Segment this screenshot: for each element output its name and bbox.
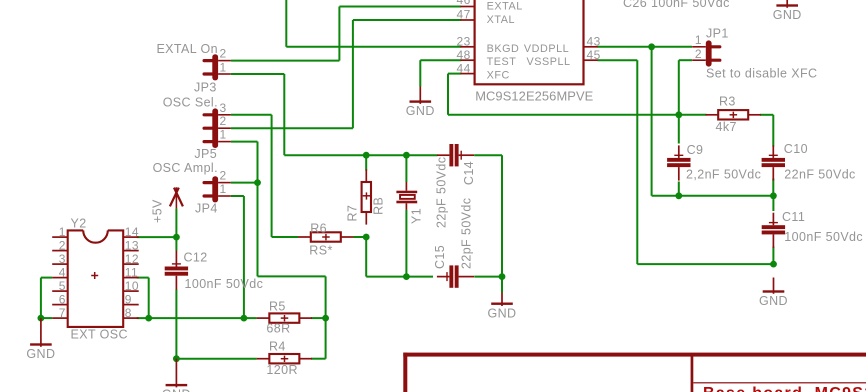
wire C15 right [474,276,502,278]
svg-text:1: 1 [220,60,227,74]
jumper JP4 [204,176,231,202]
IC U1 MC9S12E256MPVE box and pins [460,0,597,84]
svg-text:14: 14 [125,225,139,239]
svg-text:EXT OSC: EXT OSC [71,327,128,341]
wire VSSPLL vertical [636,60,638,264]
wire EXTAL vertical [338,7,340,61]
resistor R5 [257,313,312,322]
junction R7 top [363,152,370,159]
wire XFC vertical [447,74,449,115]
junction Y2 pin7-GND [38,315,45,322]
svg-text:BKGD: BKGD [487,43,520,55]
svg-text:C15: C15 [433,245,447,269]
svg-text:C14: C14 [462,161,476,185]
wire XTAL to JP5 pin2 [231,127,353,129]
ground C15 [488,293,517,321]
capacitor C15 [437,265,474,287]
wire R5 right vertical [325,276,327,358]
svg-text:5: 5 [59,279,66,293]
svg-text:R5: R5 [269,299,286,313]
junction R6-R7 [363,234,370,241]
junction JP5.1-JP4.2 [254,179,261,186]
capacitor C11 [762,213,785,248]
wire JP5 pin3 vertical [271,115,273,237]
wire JP5 pin1 vertical [257,142,259,183]
svg-text:OSC Ampl.: OSC Ampl. [153,161,218,175]
wire Y2 pin4 [41,277,52,279]
IC Y2 EXT OSC box and pins [52,230,139,327]
capacitor C9 [667,145,690,180]
junction +5V-pin14 [173,234,180,241]
wire VDDPLL pin43 to JP1 pin1 [598,46,693,48]
wire JP5 pin1 horizontal [231,141,258,143]
svg-text:C11: C11 [782,210,805,224]
resistor R4 [257,354,312,363]
svg-text:XFC: XFC [487,70,510,82]
wire OSC ampl horizontal [258,275,326,277]
junction VDDPLL-JP1 [648,43,655,50]
svg-text:EXTAL On: EXTAL On [156,42,218,56]
capacitor C12 [165,251,188,290]
wire C9 top [678,115,680,144]
svg-text:1: 1 [220,128,227,142]
resistor R3 [706,110,761,119]
svg-text:GND: GND [406,104,435,118]
wire R6 to Y1 bottom [366,276,406,278]
wire JP4 pin1 horizontal [231,195,244,197]
svg-text:R6: R6 [310,221,327,235]
svg-text:Base board MC9S12E256MPVE: Base board MC9S12E256MPVE [703,385,866,392]
svg-text:1: 1 [59,225,66,239]
wire R6 right [353,236,366,238]
svg-text:VSSPLL: VSSPLL [527,56,571,68]
svg-text:47: 47 [457,8,471,22]
svg-text:1: 1 [220,182,227,196]
ground C12 [162,359,191,392]
wire JP3 pin1 vertical [283,74,285,155]
svg-text:7: 7 [59,306,66,320]
svg-text:2: 2 [59,238,66,252]
wire crystal top rail [284,154,437,156]
wire R6 left [272,236,299,238]
wire EXTAL pin46 horizontal [339,6,461,8]
capacitor C10 [762,145,785,180]
svg-text:6: 6 [59,292,66,306]
svg-text:100nF 50Vdc: 100nF 50Vdc [185,277,264,291]
wire XFC to R3 [448,114,706,116]
wire C15 gnd stub [501,277,503,293]
svg-text:10: 10 [125,279,139,293]
wire Y2 pin4 vertical [40,278,42,319]
svg-text:9: 9 [125,292,132,306]
svg-text:GND: GND [26,347,55,361]
resistor R6 [298,232,353,241]
wire C12 bottom vertical [175,290,177,359]
wire R4 left row [176,358,256,360]
svg-text:MC9S12E256MPVE: MC9S12E256MPVE [475,88,593,103]
svg-text:3: 3 [59,252,66,266]
wire Y2 pin7 [41,317,52,319]
svg-text:48: 48 [457,48,471,62]
wire R7 top [365,155,367,170]
svg-text:120R: 120R [266,363,297,377]
svg-text:Set to disable XFC: Set to disable XFC [706,67,817,81]
wire R3 right [760,114,773,116]
svg-text:R7: R7 [346,205,360,222]
supply +5V arrow [170,187,183,208]
wire EXTAL to JP3 pin2 [231,60,339,62]
svg-text:4: 4 [59,265,66,279]
svg-text:4k7: 4k7 [716,120,737,134]
wire C10 bottom [772,179,774,196]
svg-text:JP4: JP4 [195,202,218,216]
junction pin11-pin8 [145,315,152,322]
svg-text:2: 2 [220,169,227,183]
svg-text:C10: C10 [784,142,808,156]
svg-text:43: 43 [587,34,601,48]
junction C15-GND [499,273,506,280]
svg-text:R4: R4 [269,340,286,354]
wire XFC pin44 horizontal [448,73,461,75]
jumper JP3 [204,54,231,80]
resistor R7 [362,169,371,224]
svg-text:RS*: RS* [309,244,332,258]
junction Y1 bottom [403,273,410,280]
wire BKGD pin23 horizontal [286,46,461,48]
svg-text:3: 3 [220,101,227,115]
svg-text:2: 2 [220,114,227,128]
svg-text:+5V: +5V [150,199,164,223]
svg-text:45: 45 [587,48,601,62]
svg-text:13: 13 [125,238,139,252]
wire Y1 bottom vertical [405,210,407,277]
jumper JP5 [204,108,231,148]
wire R4 right horizontal [311,358,326,360]
svg-text:23: 23 [457,34,471,48]
ground top right [773,0,802,22]
wire VDDPLL bottom horizontal [652,195,774,197]
svg-text:8: 8 [125,306,132,320]
wire C14 right horizontal [474,154,502,156]
wire JP4 pin2 horizontal [231,182,258,184]
ground C11 [759,278,788,309]
wire JP5 pin3 horizontal [231,114,272,116]
wire C15 left [406,276,433,278]
junction pin8-R5 [241,315,248,322]
svg-text:OSC Sel.: OSC Sel. [163,96,218,110]
junction Y1 top [403,152,410,159]
wire XTAL pin47 horizontal [353,19,461,21]
junction R5-R4 right [322,315,329,322]
wire C14 right vertical [501,155,503,276]
svg-text:R3: R3 [719,94,736,108]
svg-text:JP1: JP1 [706,27,729,41]
wire Y1 top [405,155,407,182]
junction C10-C11 [770,192,777,199]
svg-text:VDDPLL: VDDPLL [524,43,569,55]
capacitor C14 [437,144,474,166]
crystal Y1 [396,182,417,210]
wire C10 top [772,115,774,147]
svg-text:Y2: Y2 [71,217,87,231]
junction C12-R4-GND [173,355,180,362]
svg-text:44: 44 [457,61,471,75]
svg-text:EXTAL: EXTAL [487,1,523,13]
wire Y2 pin14 [137,236,177,238]
wire XTAL vertical [352,20,354,128]
wire TEST vertical to ground [419,60,421,86]
svg-text:22pF 50Vdc: 22pF 50Vdc [460,198,474,269]
wire plus5V down [175,209,177,251]
svg-text:GND: GND [759,294,788,308]
jumper JP1 [692,40,720,66]
wire R7 bottom vertical [365,237,367,277]
wire C9 bottom [678,182,680,196]
wire JP4 pin1 vertical [243,196,245,318]
wire C11 top [772,196,774,211]
wire Y2 pin11 vertical [148,278,150,319]
svg-text:46: 46 [457,0,471,7]
svg-text:68R: 68R [266,321,290,335]
wire JP3 pin1 horizontal [231,73,284,75]
svg-text:2,2nF 50Vdc: 2,2nF 50Vdc [686,167,761,181]
wire R5 right horizontal [311,317,326,319]
wire Y2 pin11 [137,277,149,279]
wire VDDPLL vertical [651,47,653,196]
svg-text:12: 12 [125,252,139,266]
wire Y2 pin8 row [137,317,257,319]
wire C11 bottom [772,247,774,265]
wire VSSPLL pin45 horizontal [598,59,638,61]
wire JP4 pin2 vertical [257,183,259,277]
svg-text:2: 2 [695,47,702,61]
svg-text:TEST: TEST [487,56,517,68]
junction C9 bottom [675,192,682,199]
ground Y2 [26,318,55,361]
svg-text:C9: C9 [687,143,704,157]
svg-text:2: 2 [220,47,227,61]
svg-text:XTAL: XTAL [487,14,515,26]
svg-text:22pF 50Vdc: 22pF 50Vdc [434,157,448,228]
wire JP1 pin2 vertical [678,60,680,115]
svg-text:GND: GND [773,8,802,22]
svg-text:22nF 50Vdc: 22nF 50Vdc [784,167,855,181]
svg-text:Y1: Y1 [409,208,423,224]
svg-text:JP3: JP3 [194,80,217,94]
svg-text:RB: RB [372,197,386,215]
svg-text:C12: C12 [184,250,208,264]
svg-text:11: 11 [125,265,138,279]
wire JP1 pin2 horizontal [679,59,692,61]
wire TEST pin48 horizontal [420,59,461,61]
wire VSSPLL bottom horizontal [637,263,773,265]
svg-text:C26 100nF 50Vdc: C26 100nF 50Vdc [623,0,730,10]
svg-text:JP5: JP5 [194,147,217,161]
svg-text:100nF 50Vdc: 100nF 50Vdc [784,230,863,244]
wire BKGD vertical to top edge [285,0,287,47]
title block frame [403,353,866,392]
junction C11-GND [770,261,777,268]
svg-text:1: 1 [695,33,702,47]
svg-text:GND: GND [488,306,517,320]
ground TEST pin [406,87,435,119]
junction XFC-R3-C9 [675,111,682,118]
svg-text:GND: GND [162,388,191,392]
